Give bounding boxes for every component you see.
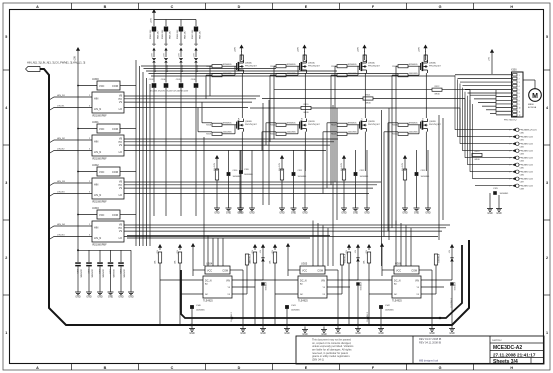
wire LIN_N2 from bus <box>49 149 92 154</box>
svg-text:100J0805: 100J0805 <box>409 73 419 75</box>
svg-text:TLE4925: TLE4925 <box>203 300 213 303</box>
svg-text:GND: GND <box>189 332 195 335</box>
shunt/filter cluster 3 <box>401 150 431 215</box>
svg-text:470K0603: 470K0603 <box>453 282 455 290</box>
+15V power arrow left <box>74 47 81 62</box>
bottom IC U304 <box>160 262 263 303</box>
svg-text:Q303B: Q303B <box>429 121 436 123</box>
svg-text:+15V: +15V <box>74 56 77 62</box>
svg-text:VB: VB <box>119 139 123 141</box>
svg-text:GR0D: GR0D <box>434 94 440 96</box>
svg-text:100S0805: 100S0805 <box>112 269 114 278</box>
transistor Q303B lower with gate resistors <box>392 119 441 136</box>
svg-text:PHCZNQ107: PHCZNQ107 <box>429 66 442 68</box>
svg-text:C322: C322 <box>87 269 89 274</box>
svg-text:3: 3 <box>519 82 520 84</box>
svg-text:Sheets 3/4: Sheets 3/4 <box>493 359 518 365</box>
svg-text:X300: X300 <box>511 69 517 72</box>
svg-text:LIN_N3: LIN_N3 <box>57 192 65 194</box>
svg-text:HIN_N3: HIN_N3 <box>57 181 66 183</box>
shunt/filter cluster 0 <box>213 150 243 215</box>
svg-text:VCC: VCC <box>302 270 307 273</box>
svg-text:GND: GND <box>355 332 361 335</box>
svg-text:100S0805: 100S0805 <box>244 174 253 176</box>
svg-text:U304: U304 <box>206 262 213 266</box>
svg-text:3: 3 <box>5 181 7 185</box>
svg-text:GND: GND <box>449 332 455 335</box>
svg-text:GND: GND <box>364 212 370 215</box>
capacitor C324 bank <box>108 250 114 298</box>
svg-text:IR2108SPBF: IR2108SPBF <box>92 115 107 118</box>
svg-text:M: M <box>532 93 538 100</box>
svg-text:GND: GND <box>97 296 103 299</box>
wire LIN_N1 from bus <box>49 106 92 111</box>
svg-text:HO: HO <box>119 99 123 101</box>
svg-text:2: 2 <box>510 137 511 139</box>
svg-text:Q301A: Q301A <box>308 62 315 65</box>
bottom IC U306 <box>349 262 452 303</box>
svg-text:C383: C383 <box>520 153 524 155</box>
svg-text:HO: HO <box>119 142 123 144</box>
svg-text:U306: U306 <box>395 262 402 266</box>
wire bundle vertical left <box>136 60 150 246</box>
wire source down 0 <box>241 132 243 171</box>
capacitor C322 bank <box>86 250 92 298</box>
svg-text:COM: COM <box>411 270 417 273</box>
svg-text:100S0805: 100S0805 <box>196 310 205 312</box>
wires mid staircase bus <box>127 236 330 239</box>
svg-text:2: 2 <box>510 165 511 167</box>
svg-text:GR0D: GR0D <box>365 102 371 104</box>
svg-text:1: 1 <box>5 331 7 335</box>
svg-text:HIN_N2: HIN_N2 <box>57 138 66 140</box>
svg-text:9: 9 <box>519 104 520 106</box>
capacitor C329 <box>490 188 508 206</box>
wire HIN_N3 from bus <box>49 181 92 186</box>
svg-text:GND: GND <box>260 332 266 335</box>
capacitor C320 cluster <box>238 150 255 215</box>
title block name fields <box>492 339 536 365</box>
svg-text:GND: GND <box>279 212 285 215</box>
svg-text:VIN: VIN <box>226 280 230 283</box>
svg-text:PHCZNQ107: PHCZNQ107 <box>368 66 381 68</box>
svg-text:GND: GND <box>249 212 255 215</box>
svg-text:+15V: +15V <box>151 17 153 23</box>
bus label HIN_N[1..3],LIN_N[1..3],CX_PWM[1..3],HALL[1..3] <box>26 61 86 72</box>
svg-text:GND: GND <box>378 332 384 335</box>
svg-text:LO: LO <box>119 193 122 197</box>
capacitor C325 bank <box>118 250 124 298</box>
svg-text:R306 2K2: R306 2K2 <box>177 29 179 39</box>
shunt/filter cluster 1 <box>278 150 308 215</box>
svg-text:G: G <box>439 5 442 9</box>
gate driver IC U303 <box>77 206 136 247</box>
svg-text:6: 6 <box>519 93 520 95</box>
svg-text:R304 2K2: R304 2K2 <box>150 29 152 39</box>
svg-text:MIB designed tool: MIB designed tool <box>419 360 439 363</box>
svg-text:GND: GND <box>402 212 408 215</box>
svg-text:GND: GND <box>414 212 420 215</box>
svg-text:D: D <box>238 366 241 370</box>
svg-text:1: 1 <box>519 75 520 77</box>
svg-text:+40V: +40V <box>358 46 360 52</box>
svg-text:DC_N: DC_N <box>205 280 212 283</box>
svg-text:+15V: +15V <box>151 53 153 58</box>
svg-text:5: 5 <box>5 35 7 39</box>
svg-text:COM: COM <box>112 84 118 88</box>
svg-text:GND: GND <box>487 212 493 215</box>
svg-text:W06 4K7: W06 4K7 <box>170 30 172 39</box>
svg-text:GR0D: GR0D <box>474 159 480 161</box>
transistor Q302B lower with gate resistors <box>331 119 380 136</box>
svg-text:C325: C325 <box>119 269 121 274</box>
svg-text:COM: COM <box>112 127 118 131</box>
svg-text:HIN: HIN <box>94 140 99 144</box>
svg-text:100S0805: 100S0805 <box>122 269 124 278</box>
transistor Q300B lower with gate resistors <box>206 118 257 136</box>
wire sense line C with resistor R322 GR0D <box>274 86 470 151</box>
gate driver IC U302 <box>77 163 136 204</box>
svg-text:D: D <box>238 5 241 9</box>
svg-text:470K0603: 470K0603 <box>437 254 439 263</box>
svg-text:2: 2 <box>510 186 511 188</box>
svg-text:1: 1 <box>546 331 548 335</box>
svg-text:100J0805: 100J0805 <box>409 132 419 134</box>
net label arrows right <box>475 128 537 190</box>
wires bootstrap VB bundle <box>141 66 455 76</box>
svg-text:27.11.2008 21:41:17: 27.11.2008 21:41:17 <box>493 352 536 357</box>
svg-text:C: C <box>171 366 174 370</box>
svg-text:C387: C387 <box>520 181 524 183</box>
connector X300 <box>455 69 523 122</box>
transistor Q301B lower with gate resistors <box>270 119 320 136</box>
transistor Q303A upper with gate resistors <box>392 45 441 78</box>
svg-text:100J0805: 100J0805 <box>348 73 358 75</box>
svg-text:LO: LO <box>119 236 122 240</box>
svg-text:C: C <box>171 5 174 9</box>
wire +15V vertical <box>77 56 79 214</box>
wire phase node 3 <box>425 73 427 118</box>
svg-text:VB: VB <box>119 225 123 227</box>
svg-text:Q300B: Q300B <box>245 121 252 123</box>
svg-text:VS: VS <box>119 231 123 233</box>
svg-text:2: 2 <box>519 78 520 80</box>
svg-text:B: B <box>104 5 107 9</box>
svg-text:+15V: +15V <box>163 53 165 58</box>
svg-text:W06 4K7: W06 4K7 <box>158 30 160 39</box>
svg-text:U302: U302 <box>92 163 99 167</box>
svg-text:GND: GND <box>353 212 359 215</box>
svg-text:3: 3 <box>546 181 548 185</box>
svg-text:W06 4K7: W06 4K7 <box>200 30 202 39</box>
transistor Q302A upper with gate resistors <box>331 45 380 78</box>
bottom IC U306 left components <box>344 243 385 325</box>
wire top feed <box>154 17 196 20</box>
svg-text:2: 2 <box>546 256 548 260</box>
svg-text:GND: GND <box>496 212 502 215</box>
svg-text:PHCZNQ107: PHCZNQ107 <box>368 124 381 126</box>
transistor Q300A upper with gate resistors <box>206 45 257 78</box>
svg-text:HIN: HIN <box>94 183 99 187</box>
svg-text:100J0805: 100J0805 <box>223 73 233 75</box>
svg-text:VCC: VCC <box>396 270 401 273</box>
svg-text:+5V: +5V <box>489 56 491 60</box>
wires sense pair phase3 <box>382 108 390 266</box>
svg-text:Q302B: Q302B <box>368 121 375 123</box>
svg-text:C304: C304 <box>161 79 166 81</box>
svg-text:R305 2K2: R305 2K2 <box>162 29 164 39</box>
svg-text:GND: GND <box>238 212 244 215</box>
svg-text:FRCT3207-2: FRCT3207-2 <box>504 120 517 122</box>
svg-text:LO: LO <box>119 150 122 154</box>
svg-text:LIN_N2: LIN_N2 <box>57 149 65 151</box>
svg-text:U301: U301 <box>92 120 99 124</box>
wire source down 2 <box>364 132 366 171</box>
svg-text:GND: GND <box>108 296 114 299</box>
svg-text:(DIN 34-1): (DIN 34-1) <box>312 357 324 361</box>
svg-text:C303: C303 <box>149 79 154 81</box>
gate driver IC U300 <box>77 77 136 118</box>
svg-text:2: 2 <box>510 172 511 174</box>
bottom IC U306 right components <box>378 244 455 335</box>
+15V power arrow top <box>151 9 157 23</box>
svg-text:VCC: VCC <box>99 213 105 217</box>
svg-text:C323: C323 <box>98 269 100 274</box>
svg-text:PHCZNQ107: PHCZNQ107 <box>308 66 321 68</box>
svg-text:NRS0805: NRS0805 <box>287 123 297 125</box>
svg-text:HIN_N1: HIN_N1 <box>57 95 66 97</box>
gate driver IC U301 <box>77 120 136 161</box>
wire sense vertical x204 <box>203 137 205 266</box>
svg-text:2: 2 <box>510 151 511 153</box>
wire phase node 1 <box>304 73 306 118</box>
shunt/filter cluster 2 <box>340 150 370 215</box>
wire HIN_N4 from bus <box>49 224 92 229</box>
svg-text:REV 04.11.2008 IB: REV 04.11.2008 IB <box>419 341 441 345</box>
svg-text:HIN_N4: HIN_N4 <box>57 224 66 226</box>
svg-text:HIN: HIN <box>94 226 99 230</box>
svg-text:VS: VS <box>119 188 123 190</box>
svg-text:100S0805: 100S0805 <box>385 310 394 312</box>
svg-text:R307 2K2: R307 2K2 <box>192 29 194 39</box>
junction taps on bus <box>190 317 441 326</box>
svg-text:ECDF/A: ECDF/A <box>528 106 537 109</box>
svg-text:H: H <box>510 5 513 9</box>
svg-text:2: 2 <box>510 144 511 146</box>
svg-text:2: 2 <box>510 158 511 160</box>
svg-text:GND: GND <box>341 212 347 215</box>
wire source down 1 <box>304 132 306 171</box>
svg-text:COM: COM <box>112 213 118 217</box>
wire +15V rail down to cap bank <box>77 214 131 251</box>
svg-text:GND: GND <box>118 296 124 299</box>
svg-text:DC_N: DC_N <box>300 280 307 283</box>
svg-text:47u16V 47u16V 47u16V 47u16V 47: 47u16V 47u16V 47u16V 47u16V 47u16V <box>150 91 189 93</box>
wires sense pair phase2 <box>333 105 337 266</box>
svg-text:H: H <box>510 366 513 370</box>
svg-text:PHCZNQ107: PHCZNQ107 <box>308 124 321 126</box>
svg-text:100J0805: 100J0805 <box>348 132 358 134</box>
wires gate drive staircase <box>124 66 450 236</box>
svg-text:GND: GND <box>240 332 246 335</box>
svg-text:GND: GND <box>226 212 232 215</box>
svg-text:PHCZNQ107: PHCZNQ107 <box>245 124 258 126</box>
svg-text:IR2108SPBF: IR2108SPBF <box>92 201 107 204</box>
svg-text:NC: NC <box>205 294 209 296</box>
svg-text:TLE4925: TLE4925 <box>298 300 308 303</box>
svg-text:7: 7 <box>519 97 520 99</box>
svg-text:GND: GND <box>335 332 341 335</box>
svg-text:HIN: HIN <box>94 97 99 101</box>
svg-text:LO: LO <box>119 107 122 111</box>
svg-text:470K0603: 470K0603 <box>264 282 266 290</box>
svg-text:C388: C388 <box>520 188 524 190</box>
svg-text:IR2108SPBF: IR2108SPBF <box>92 244 107 247</box>
svg-text:MCE3DC-A2: MCE3DC-A2 <box>493 345 522 351</box>
svg-text:C384: C384 <box>520 160 524 162</box>
svg-text:LIN_N: LIN_N <box>94 193 101 197</box>
svg-text:470K0603: 470K0603 <box>359 282 361 290</box>
svg-text:LIN_N: LIN_N <box>94 150 101 154</box>
svg-text:NRS0805: NRS0805 <box>348 64 358 66</box>
ground <box>321 327 327 337</box>
svg-text:VS: VS <box>119 145 123 147</box>
svg-text:COM: COM <box>222 270 228 273</box>
svg-text:GND: GND <box>302 212 308 215</box>
svg-text:Q301B: Q301B <box>308 121 315 123</box>
wire source down 3 <box>425 132 427 171</box>
+5V arrow right <box>489 49 495 74</box>
svg-text:PHCZNQ107: PHCZNQ107 <box>245 66 258 68</box>
svg-text:COM: COM <box>317 270 323 273</box>
svg-text:NRS0805: NRS0805 <box>287 64 297 66</box>
svg-text:D301: D301 <box>164 44 168 46</box>
svg-text:+15V: +15V <box>178 53 180 58</box>
ground <box>302 327 308 337</box>
svg-text:100S0805: 100S0805 <box>90 269 92 278</box>
svg-text:LIN_N1: LIN_N1 <box>57 106 65 108</box>
svg-text:HIN_N[1..3],LIN_N[1..3],CX_PWM: HIN_N[1..3],LIN_N[1..3],CX_PWM[1..3],HAL… <box>27 61 86 65</box>
svg-text:5: 5 <box>546 35 548 39</box>
capacitor C321 bank <box>75 250 81 298</box>
svg-text:VIN: VIN <box>321 280 325 283</box>
svg-text:5: 5 <box>519 89 520 91</box>
svg-text:CX_PWM 2: CX_PWM 2 <box>367 312 369 322</box>
svg-text:C324: C324 <box>108 269 110 274</box>
svg-text:GND: GND <box>128 296 134 299</box>
svg-text:C321: C321 <box>76 269 78 274</box>
title block revision text <box>419 337 441 362</box>
wires drops to bottom ICs <box>208 221 411 267</box>
svg-text:100S0805: 100S0805 <box>500 193 509 195</box>
svg-text:D302: D302 <box>179 44 183 46</box>
svg-text:100J0805: 100J0805 <box>223 132 233 134</box>
svg-text:C386: C386 <box>520 174 524 176</box>
wires sense pair phase1 <box>263 100 269 205</box>
transistor Q301A upper with gate resistors <box>270 45 320 78</box>
wire phase node 0 <box>241 73 243 118</box>
svg-text:Q302A: Q302A <box>368 62 375 65</box>
bus wire lower branch <box>181 245 462 318</box>
svg-text:100S0805: 100S0805 <box>101 269 103 278</box>
svg-text:100S0805: 100S0805 <box>79 269 81 278</box>
title block disclaimer text <box>312 338 354 362</box>
bootstrap column D303/C306 <box>191 20 202 217</box>
bottom IC U305 right components <box>284 244 361 335</box>
svg-text:GND: GND <box>284 332 290 335</box>
svg-text:LIN_N4: LIN_N4 <box>57 235 65 237</box>
svg-text:NRS0805: NRS0805 <box>409 123 419 125</box>
svg-text:100S0805: 100S0805 <box>291 310 300 312</box>
svg-text:LIN_N: LIN_N <box>94 236 101 240</box>
svg-text:COM: COM <box>112 170 118 174</box>
wire LIN_N3 from bus <box>49 192 92 197</box>
svg-text:GND: GND <box>291 212 297 215</box>
svg-text:waldritter: waldritter <box>492 339 502 342</box>
wire sense line A with resistor R320 GR0D <box>250 104 460 137</box>
title block frame <box>296 336 544 364</box>
svg-text:10: 10 <box>519 108 521 110</box>
svg-text:B: B <box>104 366 107 370</box>
bootstrap column D301/C304 <box>161 20 172 217</box>
svg-text:11: 11 <box>519 111 521 113</box>
svg-text:GND: GND <box>214 212 220 215</box>
svg-text:C382: C382 <box>520 146 524 148</box>
svg-text:100J0805: 100J0805 <box>287 73 297 75</box>
svg-text:U305: U305 <box>301 262 308 266</box>
svg-text:C305: C305 <box>176 79 181 81</box>
svg-text:GND: GND <box>425 212 431 215</box>
svg-text:LIN_N: LIN_N <box>94 107 101 111</box>
svg-text:+40V: +40V <box>419 46 421 52</box>
capacitor C323 bank <box>97 250 103 298</box>
svg-text:NC: NC <box>300 294 304 296</box>
bottom IC U305 left components <box>250 243 291 325</box>
svg-text:100J0805: 100J0805 <box>287 132 297 134</box>
svg-text:VCC: VCC <box>207 270 212 273</box>
wire HIN_N1 from bus <box>49 95 92 100</box>
svg-text:VCC: VCC <box>99 84 105 88</box>
svg-text:VS: VS <box>119 102 123 104</box>
svg-text:D300: D300 <box>152 44 156 46</box>
wire bundle right <box>455 75 512 178</box>
svg-text:VCC: VCC <box>99 127 105 131</box>
bottom IC U304 left components <box>155 243 196 325</box>
svg-text:D303: D303 <box>194 44 198 46</box>
svg-text:GR0D: GR0D <box>303 112 309 114</box>
svg-text:C385: C385 <box>520 167 524 169</box>
wire HIN_N2 from bus <box>49 138 92 143</box>
wire bank end ground <box>128 250 134 298</box>
bottom IC U304 right components <box>189 244 266 335</box>
svg-text:PHCZNQ107: PHCZNQ107 <box>429 124 442 126</box>
svg-text:NRS0805: NRS0805 <box>348 123 358 125</box>
svg-text:VIN: VIN <box>415 280 419 283</box>
svg-text:2: 2 <box>5 256 7 260</box>
svg-text:GND: GND <box>429 332 435 335</box>
bus wire main vertical <box>40 69 469 325</box>
svg-text:NRS0805: NRS0805 <box>223 64 233 66</box>
svg-text:DC_N: DC_N <box>394 280 401 283</box>
svg-text:VB: VB <box>119 182 123 184</box>
svg-text:+40V: +40V <box>235 46 237 52</box>
resistor R323 GR0D <box>472 151 482 161</box>
svg-text:CX_PWM 3: CX_PWM 3 <box>451 298 453 308</box>
svg-text:NC: NC <box>394 294 398 296</box>
svg-text:2: 2 <box>510 179 511 181</box>
svg-text:TLE4925: TLE4925 <box>392 300 402 303</box>
svg-text:Q303A: Q303A <box>429 62 436 65</box>
